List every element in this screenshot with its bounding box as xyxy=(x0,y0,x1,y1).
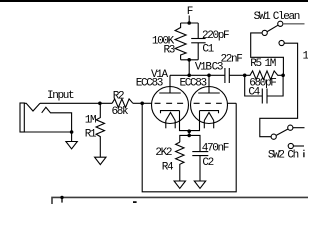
svg-text:Ch: Ch xyxy=(287,149,298,161)
svg-text:ECC83: ECC83 xyxy=(180,78,207,90)
wire R3/C1 to anode strap xyxy=(188,60,190,76)
svg-text:C2: C2 xyxy=(202,157,213,169)
svg-text:22nF: 22nF xyxy=(221,54,243,66)
wire jack sleeve xyxy=(24,131,71,133)
wire R2 to grid node xyxy=(133,102,144,104)
wire top rail R3/C1 xyxy=(181,22,199,24)
resistor R5 xyxy=(245,58,283,79)
ground (R1) xyxy=(95,157,106,164)
top power rail xyxy=(0,0,308,2)
svg-text:68k: 68k xyxy=(112,106,130,118)
capacitor C3 xyxy=(212,54,243,83)
junction cathode xyxy=(187,129,191,133)
junction V1B anode xyxy=(207,74,211,78)
resistor R3 xyxy=(152,23,186,60)
junction bottom of R3/C1 xyxy=(187,58,191,62)
bottom bus wire xyxy=(52,197,308,204)
svg-text:1M: 1M xyxy=(265,58,276,70)
svg-text:220pF: 220pF xyxy=(202,30,229,42)
svg-text:SW2: SW2 xyxy=(268,149,285,161)
svg-text:2K2: 2K2 xyxy=(155,147,172,159)
svg-text:SW1: SW1 xyxy=(254,11,272,23)
ground (R4) xyxy=(174,181,185,188)
svg-text:C3: C3 xyxy=(212,62,223,74)
junction top of R3/C1 xyxy=(187,21,191,25)
svg-text:ECC83: ECC83 xyxy=(136,78,163,90)
junction input node xyxy=(98,102,102,106)
wire grid tie loop xyxy=(142,103,236,192)
wire split bar xyxy=(180,135,200,151)
svg-text:470nF: 470nF xyxy=(202,142,229,154)
svg-text:C4: C4 xyxy=(248,87,260,99)
svg-text:R1: R1 xyxy=(85,128,97,140)
resistor R1 xyxy=(85,103,105,157)
wire to ground xyxy=(71,132,73,142)
triode V1B xyxy=(180,62,228,129)
svg-text:Input: Input xyxy=(47,90,74,102)
wire cathode merge xyxy=(180,111,200,131)
input jack J1 xyxy=(20,90,74,132)
wire V1B anode lead xyxy=(208,75,210,93)
wire SW2 upper output xyxy=(293,127,305,129)
junction bottom bus xyxy=(60,196,63,199)
junction jack sleeve xyxy=(70,130,74,134)
svg-text:R4: R4 xyxy=(162,162,174,174)
wire input to R2 xyxy=(40,102,112,104)
ground (jack) xyxy=(66,142,77,149)
junction grid node xyxy=(140,102,144,106)
junction R5 left xyxy=(243,74,247,78)
bus mark xyxy=(133,201,137,203)
svg-text:1: 1 xyxy=(303,51,309,63)
wire F to R3/C1 top xyxy=(188,16,190,24)
wire SW1 upper throw to R5 right xyxy=(251,33,284,75)
wire grid bus (dashed) xyxy=(155,102,222,104)
svg-text:1M: 1M xyxy=(85,115,96,127)
switch SW1 xyxy=(254,11,300,46)
svg-text:R3: R3 xyxy=(164,44,175,56)
wire anode strap xyxy=(170,74,209,76)
wire SW1 lower throw to SW2 xyxy=(260,43,298,137)
resistor R2 xyxy=(112,90,133,118)
switch SW2 xyxy=(268,125,304,161)
wire V1A anode lead xyxy=(169,75,171,93)
wire SW1 pole output xyxy=(283,23,305,25)
svg-text:R5: R5 xyxy=(250,58,261,70)
wire cathode to split xyxy=(188,131,190,136)
svg-text:V1B: V1B xyxy=(195,62,213,74)
wire grid node to V1A xyxy=(142,102,151,104)
triode V1A xyxy=(136,69,189,128)
svg-text:Clean: Clean xyxy=(273,11,300,23)
junction R5 right xyxy=(281,74,285,78)
wire V1B grid lead xyxy=(227,102,236,104)
capacitor C2 xyxy=(192,142,229,181)
wire anode to C3 xyxy=(209,74,225,76)
wire bus stub down xyxy=(61,197,63,202)
capacitor C1 xyxy=(191,23,229,60)
svg-text:R2: R2 xyxy=(113,90,124,102)
wire SW2 lower output xyxy=(293,145,304,147)
svg-text:C1: C1 xyxy=(202,43,214,55)
junction anode strap xyxy=(187,74,191,78)
resistor R4 xyxy=(155,142,184,181)
capacitor C4 xyxy=(245,75,283,103)
junction split xyxy=(187,134,191,138)
ground (C2) xyxy=(194,181,205,188)
wire bottom rail R3/C1 xyxy=(181,59,199,61)
wire C3 to R5 xyxy=(229,74,244,76)
